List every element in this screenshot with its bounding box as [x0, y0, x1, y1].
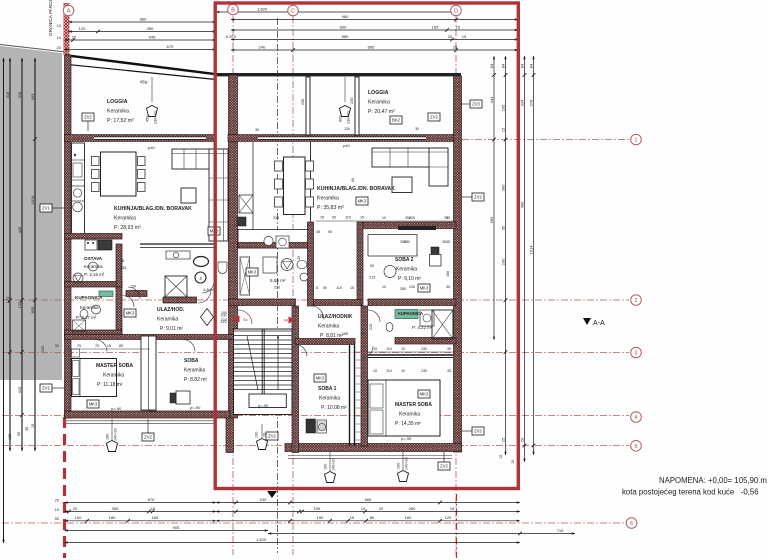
svg-text:P: 9,01 m²: P: 9,01 m²	[160, 326, 183, 332]
svg-text:4: 4	[635, 415, 638, 421]
svg-text:350: 350	[405, 216, 411, 220]
svg-text:230: 230	[350, 98, 354, 104]
svg-text:Keramika: Keramika	[107, 109, 129, 115]
svg-text:1614: 1614	[528, 245, 533, 255]
svg-text:240: 240	[260, 497, 267, 502]
svg-text:140+20: 140+20	[332, 458, 336, 471]
svg-text:SOBA: SOBA	[184, 358, 199, 364]
svg-text:1.620: 1.620	[256, 537, 267, 542]
svg-text:195: 195	[314, 506, 321, 511]
svg-text:960: 960	[342, 14, 349, 19]
svg-text:200: 200	[500, 258, 505, 265]
svg-text:35: 35	[415, 127, 419, 131]
svg-text:MK3: MK3	[248, 270, 257, 275]
svg-text:318: 318	[17, 91, 22, 98]
svg-text:SOBA 1: SOBA 1	[318, 386, 337, 392]
svg-text:90: 90	[370, 264, 374, 268]
svg-text:10: 10	[382, 216, 386, 220]
svg-text:ZV1: ZV1	[42, 386, 50, 391]
svg-text:A-A: A-A	[593, 320, 605, 327]
svg-text:Keramika: Keramika	[84, 264, 103, 269]
svg-text:2: 2	[635, 298, 638, 304]
svg-text:15: 15	[511, 460, 515, 464]
svg-text:P: 8,82 m²: P: 8,82 m²	[184, 377, 207, 383]
svg-text:35: 35	[444, 216, 448, 220]
svg-text:ZV2: ZV2	[268, 434, 276, 439]
svg-text:75: 75	[120, 259, 124, 263]
svg-text:35: 35	[25, 427, 29, 431]
svg-text:Keramika: Keramika	[80, 305, 99, 310]
svg-text:ZV2: ZV2	[474, 429, 482, 434]
svg-text:MASTER SOBA: MASTER SOBA	[395, 402, 432, 408]
svg-text:355: 355	[112, 506, 119, 511]
svg-text:GRANICA PARCELE: GRANICA PARCELE	[48, 0, 53, 36]
svg-text:ZV2: ZV2	[474, 195, 482, 200]
svg-text:MK3: MK3	[420, 286, 429, 291]
svg-text:15: 15	[373, 369, 377, 373]
svg-text:250: 250	[274, 286, 280, 290]
svg-text:15: 15	[31, 424, 35, 428]
svg-text:KUPAONICA: KUPAONICA	[398, 311, 423, 316]
svg-text:120: 120	[79, 26, 86, 31]
svg-text:85: 85	[119, 344, 123, 348]
svg-text:50: 50	[328, 230, 332, 234]
svg-text:S4: S4	[243, 318, 248, 322]
svg-text:LOGGIA: LOGGIA	[107, 99, 128, 105]
svg-text:NAPOMENA: +0,00= 105,90 m: NAPOMENA: +0,00= 105,90 m	[659, 476, 767, 485]
svg-text:10: 10	[57, 23, 62, 28]
svg-text:P: 10,08 m²: P: 10,08 m²	[321, 405, 347, 411]
svg-text:BK2: BK2	[392, 118, 401, 123]
svg-text:190: 190	[255, 432, 259, 438]
svg-text:25: 25	[453, 44, 458, 49]
svg-text:35: 35	[447, 369, 451, 373]
svg-text:180: 180	[106, 434, 110, 440]
svg-text:240: 240	[259, 44, 266, 49]
svg-text:15: 15	[320, 216, 324, 220]
svg-text:P: 17,52 m²: P: 17,52 m²	[107, 118, 134, 124]
svg-text:230: 230	[301, 99, 305, 105]
svg-text:MASTER SOBA: MASTER SOBA	[96, 363, 133, 369]
svg-text:20: 20	[379, 506, 384, 511]
svg-text:90: 90	[17, 432, 21, 436]
svg-text:S4: S4	[284, 319, 289, 323]
svg-text:P: 28,93 m²: P: 28,93 m²	[114, 225, 141, 231]
svg-text:P: 3,17 m²: P: 3,17 m²	[76, 315, 97, 320]
svg-text:ZV3: ZV3	[472, 102, 480, 107]
svg-text:P: 20,47 m²: P: 20,47 m²	[368, 109, 395, 115]
svg-text:Keramika: Keramika	[317, 196, 339, 202]
svg-text:645: 645	[149, 34, 156, 39]
svg-text:KUHINJA/BLAG./DN. BORAVAK: KUHINJA/BLAG./DN. BORAVAK	[114, 206, 192, 212]
svg-text:15: 15	[350, 515, 355, 520]
svg-text:Keramika: Keramika	[396, 267, 417, 273]
svg-text:1.620: 1.620	[257, 6, 268, 11]
svg-text:190: 190	[317, 515, 324, 520]
svg-text:10: 10	[57, 35, 62, 40]
svg-text:110: 110	[336, 286, 342, 290]
svg-text:ZV2: ZV2	[440, 464, 448, 469]
svg-text:15: 15	[151, 506, 156, 511]
svg-text:15: 15	[450, 506, 455, 511]
svg-text:35: 35	[442, 240, 446, 244]
svg-text:165: 165	[432, 24, 439, 29]
svg-text:15: 15	[107, 344, 111, 348]
svg-text:230: 230	[409, 285, 415, 289]
svg-text:20: 20	[72, 34, 77, 39]
svg-text:318: 318	[5, 91, 10, 98]
svg-text:35: 35	[297, 256, 301, 260]
svg-text:230: 230	[421, 347, 427, 351]
svg-text:15: 15	[360, 216, 364, 220]
svg-text:p=-90: p=-90	[190, 405, 201, 410]
svg-text:1614: 1614	[30, 195, 35, 205]
svg-text:ZV1: ZV1	[42, 206, 50, 211]
svg-text:15: 15	[499, 455, 503, 459]
svg-text:3: 3	[635, 351, 638, 357]
svg-text:25: 25	[500, 437, 505, 442]
svg-text:215: 215	[369, 276, 375, 280]
svg-text:Keramika: Keramika	[184, 368, 205, 374]
svg-text:p=-90: p=-90	[111, 406, 122, 411]
svg-text:50: 50	[55, 517, 59, 521]
svg-text:670: 670	[148, 497, 155, 502]
svg-text:35: 35	[447, 347, 451, 351]
svg-text:B: B	[231, 8, 235, 14]
svg-text:665: 665	[365, 497, 372, 502]
svg-text:125: 125	[8, 434, 12, 440]
svg-text:ULAZ/HODNIK: ULAZ/HODNIK	[318, 314, 353, 320]
svg-text:Keramika: Keramika	[114, 216, 136, 222]
svg-text:84: 84	[489, 63, 494, 68]
svg-text:84: 84	[500, 63, 505, 68]
svg-text:P: 2,16 m²: P: 2,16 m²	[84, 272, 105, 277]
svg-text:215: 215	[120, 266, 126, 270]
svg-text:15: 15	[373, 347, 377, 351]
svg-text:200: 200	[397, 463, 401, 469]
svg-text:MK3: MK3	[358, 199, 367, 204]
svg-text:75: 75	[77, 344, 81, 348]
svg-text:715: 715	[557, 528, 564, 533]
svg-text:344: 344	[489, 96, 494, 103]
svg-text:230+20: 230+20	[347, 111, 351, 124]
svg-text:ZV2: ZV2	[430, 115, 438, 120]
svg-text:60: 60	[351, 178, 355, 182]
svg-text:210: 210	[221, 318, 227, 322]
svg-text:180: 180	[109, 515, 116, 520]
svg-text:Keramika: Keramika	[368, 100, 390, 106]
svg-text:278: 278	[528, 99, 533, 106]
svg-text:660: 660	[140, 16, 147, 21]
svg-text:80: 80	[370, 515, 375, 520]
svg-text:p±0: p±0	[343, 143, 350, 148]
svg-text:110: 110	[345, 216, 351, 220]
svg-text:335: 335	[273, 216, 279, 220]
svg-text:230+20: 230+20	[154, 111, 158, 124]
svg-text:84: 84	[519, 63, 524, 68]
svg-text:140+20: 140+20	[405, 457, 409, 470]
svg-text:170: 170	[5, 296, 10, 303]
svg-text:110: 110	[386, 347, 392, 351]
svg-text:600: 600	[340, 24, 347, 29]
svg-text:P: 11,18 m²: P: 11,18 m²	[97, 382, 123, 388]
svg-text:350: 350	[400, 240, 406, 244]
svg-text:MK3: MK3	[89, 402, 98, 407]
svg-text:50: 50	[332, 216, 336, 220]
svg-text:100: 100	[75, 515, 82, 520]
svg-text:445: 445	[17, 226, 22, 233]
svg-text:10: 10	[361, 506, 366, 511]
svg-text:230: 230	[421, 369, 427, 373]
svg-text:P: 35,83 m²: P: 35,83 m²	[317, 205, 344, 211]
svg-text:5 20 5: 5 20 5	[226, 35, 236, 39]
svg-text:450: 450	[147, 26, 154, 31]
svg-text:P: 14,35 m²: P: 14,35 m²	[395, 421, 421, 427]
svg-text:360: 360	[500, 184, 505, 191]
svg-text:MK3: MK3	[316, 376, 325, 381]
svg-text:160: 160	[446, 271, 450, 277]
svg-text:655: 655	[489, 216, 494, 223]
svg-text:20: 20	[55, 499, 59, 503]
svg-text:D: D	[454, 9, 458, 15]
svg-text:165: 165	[152, 515, 159, 520]
svg-text:15: 15	[350, 286, 354, 290]
svg-text:SOBA 2: SOBA 2	[395, 257, 414, 263]
svg-text:496: 496	[519, 201, 524, 208]
svg-text:50: 50	[323, 286, 327, 290]
svg-text:905: 905	[173, 525, 180, 530]
svg-text:235: 235	[500, 104, 505, 111]
svg-text:280: 280	[409, 506, 416, 511]
svg-text:600: 600	[339, 116, 343, 122]
svg-text:15: 15	[500, 127, 505, 132]
svg-text:4,8 m²: 4,8 m²	[203, 287, 215, 292]
svg-text:670: 670	[167, 44, 174, 49]
svg-text:20: 20	[57, 45, 62, 50]
svg-text:84: 84	[528, 63, 533, 68]
svg-text:100: 100	[221, 311, 227, 315]
svg-text:P: 4,22 m²: P: 4,22 m²	[412, 325, 433, 330]
svg-text:185: 185	[342, 332, 348, 336]
svg-text:P: 9,10 m²: P: 9,10 m²	[398, 276, 421, 282]
svg-text:205: 205	[41, 346, 45, 352]
svg-text:ULAZ/HOD.: ULAZ/HOD.	[157, 307, 185, 313]
svg-text:p=-90: p=-90	[401, 436, 412, 441]
svg-text:130: 130	[344, 127, 350, 131]
svg-text:15: 15	[55, 508, 59, 512]
svg-text:90: 90	[361, 332, 365, 336]
svg-text:160: 160	[324, 464, 328, 470]
svg-text:8: 8	[316, 286, 318, 290]
svg-text:450: 450	[146, 116, 150, 122]
svg-text:KUPAONICA: KUPAONICA	[75, 295, 103, 300]
svg-text:20: 20	[73, 506, 78, 511]
svg-text:75: 75	[95, 344, 99, 348]
svg-text:Keramika: Keramika	[319, 396, 340, 402]
svg-text:OSTAVA: OSTAVA	[84, 256, 103, 261]
svg-text:p±0: p±0	[148, 145, 155, 150]
svg-text:p=-90: p=-90	[258, 403, 269, 408]
svg-text:Keramika: Keramika	[318, 324, 339, 330]
svg-text:125: 125	[17, 301, 22, 308]
svg-text:665: 665	[368, 44, 375, 49]
svg-text:MK3: MK3	[126, 311, 135, 316]
svg-text:20: 20	[519, 437, 524, 442]
svg-text:10: 10	[401, 369, 405, 373]
svg-text:880: 880	[342, 34, 349, 39]
svg-text:343: 343	[30, 93, 35, 100]
svg-text:160: 160	[405, 515, 412, 520]
svg-text:350: 350	[400, 287, 406, 291]
svg-text:4: 4	[199, 276, 202, 281]
svg-text:315: 315	[17, 386, 22, 393]
svg-text:35: 35	[255, 128, 259, 132]
svg-text:35: 35	[446, 285, 450, 289]
svg-text:A: A	[67, 9, 71, 15]
svg-text:110: 110	[386, 369, 392, 373]
svg-text:5,69 m²: 5,69 m²	[270, 278, 286, 283]
svg-text:MK3: MK3	[420, 392, 429, 397]
svg-text:10: 10	[382, 285, 386, 289]
svg-text:30: 30	[55, 344, 59, 348]
svg-text:6: 6	[630, 521, 633, 527]
svg-text:KUHINJA/BLAG./DN. BORAVAK: KUHINJA/BLAG./DN. BORAVAK	[317, 186, 395, 192]
svg-text:1: 1	[635, 138, 638, 144]
svg-text:334: 334	[519, 99, 524, 106]
svg-text:655: 655	[30, 306, 35, 313]
svg-text:35: 35	[446, 240, 450, 244]
svg-text:LOGGIA: LOGGIA	[368, 90, 389, 96]
svg-text:15: 15	[462, 34, 467, 39]
svg-text:20: 20	[448, 34, 453, 39]
svg-text:Keramika: Keramika	[103, 373, 124, 379]
svg-text:C: C	[291, 9, 295, 15]
svg-text:P: 8,81 m²: P: 8,81 m²	[320, 333, 343, 339]
svg-text:35: 35	[500, 225, 505, 230]
svg-text:120: 120	[445, 515, 452, 520]
svg-text:Keramika: Keramika	[157, 317, 178, 323]
svg-text:45: 45	[316, 230, 320, 234]
svg-text:5: 5	[635, 444, 638, 450]
svg-text:75: 75	[295, 307, 299, 311]
svg-text:ZV2: ZV2	[84, 115, 92, 120]
svg-text:Keramika: Keramika	[399, 412, 420, 418]
svg-text:10: 10	[401, 347, 405, 351]
svg-text:kota postojećeg terena kod kuć: kota postojećeg terena kod kuće -0,56	[622, 488, 759, 497]
svg-text:215: 215	[369, 324, 373, 330]
svg-text:ZV2: ZV2	[144, 435, 152, 440]
svg-text:15: 15	[456, 24, 461, 29]
svg-text:140+20: 140+20	[114, 428, 118, 441]
